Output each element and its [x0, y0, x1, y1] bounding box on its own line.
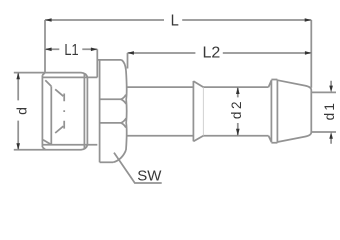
svg-text:L1: L1 — [64, 42, 78, 59]
svg-text:L: L — [171, 12, 179, 29]
dimension d1 — [312, 81, 337, 144]
svg-text:L2: L2 — [203, 44, 221, 61]
svg-text:d1: d1 — [322, 101, 337, 120]
hex SW — [97, 60, 126, 162]
end cone — [269, 80, 312, 143]
thread chamfer edge — [43, 80, 51, 144]
SW leader — [114, 153, 162, 185]
dimension L1 — [45, 42, 97, 78]
dimension d — [14, 73, 46, 150]
shank (hose tail) — [126, 87, 268, 136]
svg-text:d: d — [14, 107, 30, 115]
dimension d2 — [229, 87, 244, 136]
dimension L — [45, 12, 311, 87]
svg-text:d2: d2 — [229, 99, 244, 119]
thread body outline — [42, 73, 97, 150]
barb collar — [193, 81, 203, 141]
svg-text:SW: SW — [137, 167, 162, 184]
inner socket marks — [55, 89, 64, 133]
dimension L2 — [128, 44, 312, 68]
